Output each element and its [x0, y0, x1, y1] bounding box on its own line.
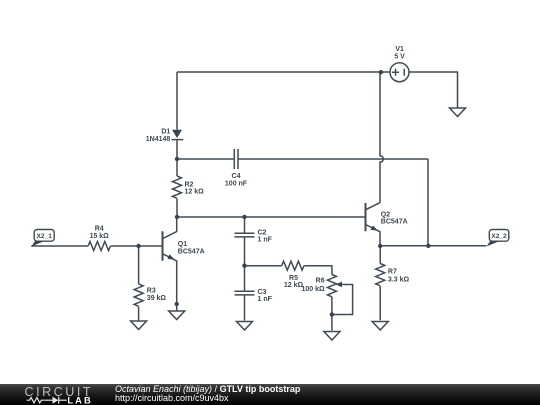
- svg-text:15 kΩ: 15 kΩ: [90, 233, 110, 240]
- svg-text:V1: V1: [395, 46, 404, 53]
- svg-text:R4: R4: [95, 225, 104, 232]
- svg-text:R2: R2: [185, 182, 194, 189]
- svg-text:C4: C4: [232, 173, 241, 180]
- svg-text:BC547A: BC547A: [381, 219, 408, 226]
- svg-text:R7: R7: [388, 268, 397, 275]
- svg-text:Q2: Q2: [381, 211, 390, 218]
- svg-text:12 kΩ: 12 kΩ: [185, 189, 205, 196]
- svg-text:1 nF: 1 nF: [258, 296, 273, 303]
- svg-text:100 nF: 100 nF: [225, 180, 248, 187]
- svg-text:C3: C3: [258, 289, 267, 296]
- svg-text:3.3 kΩ: 3.3 kΩ: [388, 276, 410, 283]
- svg-text:X2_1: X2_1: [36, 233, 52, 240]
- svg-text:BC547A: BC547A: [178, 248, 205, 255]
- svg-text:Q1: Q1: [178, 241, 187, 248]
- svg-text:5 V: 5 V: [394, 53, 405, 60]
- svg-text:1 nF: 1 nF: [258, 237, 273, 244]
- svg-text:R6: R6: [316, 278, 325, 285]
- svg-text:X2_2: X2_2: [491, 233, 507, 240]
- svg-text:1N4148: 1N4148: [146, 136, 171, 143]
- svg-text:R3: R3: [147, 288, 156, 295]
- svg-text:D1: D1: [161, 128, 170, 135]
- svg-text:100 kΩ: 100 kΩ: [301, 286, 325, 293]
- svg-text:LAB: LAB: [67, 396, 92, 405]
- svg-text:39 kΩ: 39 kΩ: [147, 295, 167, 302]
